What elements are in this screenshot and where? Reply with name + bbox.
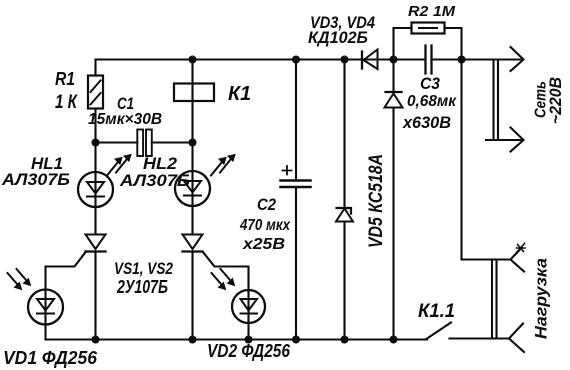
svg-text:VS1, VS2: VS1, VS2: [114, 259, 173, 278]
node top VD5: [342, 57, 348, 63]
svg-text:VD5 КС518А: VD5 КС518А: [366, 154, 387, 248]
photodiode VD1: [28, 290, 63, 325]
diode VD3: [361, 52, 363, 69]
zener VD5 branch wire: [343, 60, 345, 209]
svg-text:АЛ307Б: АЛ307Б: [1, 170, 70, 189]
svg-text:15мк×30В: 15мк×30В: [88, 111, 162, 128]
node top VD4: [391, 57, 397, 63]
svg-text:1 К: 1 К: [55, 92, 78, 113]
diode VD4: [386, 91, 402, 93]
svg-text:2У107Б: 2У107Б: [116, 277, 168, 297]
node bottom VD5: [342, 337, 348, 343]
load connector lines: [492, 260, 497, 339]
capacitor C3: [424, 46, 426, 74]
wire K1 branch top: [191, 60, 193, 84]
node bottom C2: [293, 337, 299, 343]
wire HL1 to VS1: [94, 207, 96, 235]
svg-text:Нагрузка: Нагрузка: [532, 258, 551, 339]
wire VD2 to bottom bus: [247, 323, 249, 340]
wire top bus right of C3: [432, 58, 523, 60]
VD2 light arrows: [212, 269, 234, 288]
mains arrow bottom: [511, 128, 524, 152]
svg-text:К1: К1: [228, 83, 251, 105]
node bottom VS1: [93, 337, 99, 343]
mains connector lines: [494, 60, 499, 141]
relay coil K1: [174, 84, 214, 102]
capacitor C2: [281, 179, 311, 182]
svg-text:х630В: х630В: [402, 113, 451, 132]
VD1 light arrows: [8, 269, 30, 288]
wire VS1 gate: [46, 252, 87, 290]
relay contact K1.1: [427, 323, 451, 339]
capacitor C1: [96, 141, 138, 143]
HL2 emission arrows: [211, 157, 233, 176]
LED HL2: [175, 171, 210, 206]
resistor R2: [412, 23, 445, 34]
resistor R2 loop right wire: [445, 28, 462, 60]
svg-text:АЛ307Б: АЛ307Б: [119, 171, 190, 190]
zener diode VD5: [337, 208, 352, 214]
resistor R2 loop left wire: [394, 28, 412, 60]
wire R1 to HL1: [94, 109, 96, 173]
svg-text:С3: С3: [420, 74, 440, 93]
node top right: [459, 57, 465, 63]
node bottom VS2: [190, 337, 196, 343]
node top C2: [293, 57, 299, 63]
thyristor VS1: [86, 235, 106, 250]
load socket upper: [511, 250, 525, 272]
capacitor C2 branch wire: [295, 60, 297, 181]
svg-text:R2 1М: R2 1М: [408, 3, 456, 20]
thyristor VS2: [183, 235, 203, 250]
photodiode VD2: [232, 290, 265, 323]
svg-text:0,68мк: 0,68мк: [407, 93, 457, 110]
svg-text:К1.1: К1.1: [418, 301, 455, 322]
wire VD4 down to relay contact: [392, 108, 394, 340]
node C1 left: [93, 140, 99, 146]
svg-text:КД102Б: КД102Б: [308, 28, 368, 47]
asterisk: [517, 244, 526, 253]
wire VD1 to bottom bus: [44, 325, 46, 340]
wire VS2 to bottom bus: [191, 252, 193, 340]
mains arrow top: [511, 47, 524, 71]
resistor R1: [88, 76, 103, 109]
svg-text:х25В: х25В: [242, 236, 285, 253]
wire bottom bus: [46, 338, 428, 340]
wire top bus: [96, 58, 426, 60]
wire VS1 to bottom bus: [94, 252, 96, 340]
wire VS2 gate: [203, 252, 249, 291]
node C1 right: [190, 140, 196, 146]
svg-text:~220В: ~220В: [546, 77, 565, 124]
svg-text:VD2 ФД256: VD2 ФД256: [207, 341, 291, 361]
diode VD4 branch wire: [392, 60, 394, 93]
node bottom VD2: [246, 337, 252, 343]
wire R1 branch top: [94, 60, 96, 76]
HL1 emission arrows: [107, 157, 129, 176]
svg-text:R1: R1: [55, 69, 75, 89]
mains lower stub: [486, 139, 523, 141]
wire K1 to HL2: [191, 84, 193, 172]
node bottom K1.1: [391, 337, 397, 343]
svg-text:470 мкх: 470 мкх: [239, 217, 291, 234]
svg-text:VD1 ФД256: VD1 ФД256: [3, 348, 98, 368]
wire right vertical to load: [462, 60, 511, 260]
svg-text:С2: С2: [257, 195, 276, 214]
load socket lower: [509, 324, 524, 353]
LED HL1: [78, 172, 113, 207]
wire HL2 to VS2: [191, 206, 193, 235]
node top K1: [190, 57, 196, 63]
